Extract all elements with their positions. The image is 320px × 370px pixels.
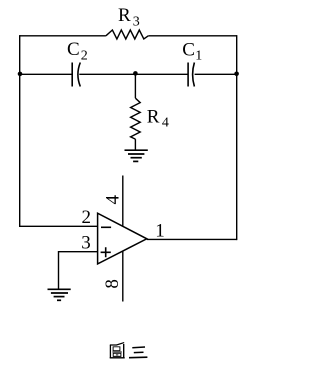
op-amp minus input marker [101, 226, 111, 228]
svg-text:2: 2 [82, 207, 92, 228]
wire top horizontal right segment [148, 35, 236, 37]
resistor R4 [131, 98, 141, 139]
svg-text:R3: R3 [118, 5, 140, 30]
svg-text:1: 1 [155, 221, 165, 242]
wire R4 stem top [134, 74, 136, 99]
wire second row left segment [20, 73, 72, 75]
ground under pin 3 [48, 289, 71, 300]
resistor R3 [106, 30, 148, 39]
svg-text:R4: R4 [147, 106, 169, 130]
wire R4 stem bottom [134, 139, 136, 150]
svg-text:3: 3 [81, 233, 91, 254]
wire output pin1 [147, 238, 237, 240]
junction node right [234, 72, 239, 77]
svg-text:C2: C2 [67, 39, 88, 64]
op-amp plus input marker [101, 247, 111, 257]
op-amp supply line top pin 4 [122, 176, 124, 227]
junction node middle [133, 71, 138, 76]
op-amp supply line bottom pin 8 [122, 251, 124, 302]
wire right vertical [236, 35, 238, 240]
wire second row right segment [195, 73, 237, 75]
svg-text:C1: C1 [182, 39, 202, 63]
junction node left [18, 72, 23, 77]
capacitor C1 [188, 63, 194, 87]
wire pin3 feed with ground stub [59, 252, 98, 290]
ground under R4 [125, 150, 148, 161]
svg-text:4: 4 [102, 195, 123, 205]
caption 三 drawn strokes [129, 347, 147, 358]
svg-text:8: 8 [102, 279, 123, 289]
wire left vertical + pin2 feed [20, 35, 98, 226]
wire top horizontal left segment [20, 35, 106, 37]
wire second row middle segment [79, 73, 188, 75]
capacitor C2 [72, 63, 80, 87]
op-amp U1 triangle [98, 213, 147, 264]
caption 圖 drawn strokes [110, 343, 125, 358]
